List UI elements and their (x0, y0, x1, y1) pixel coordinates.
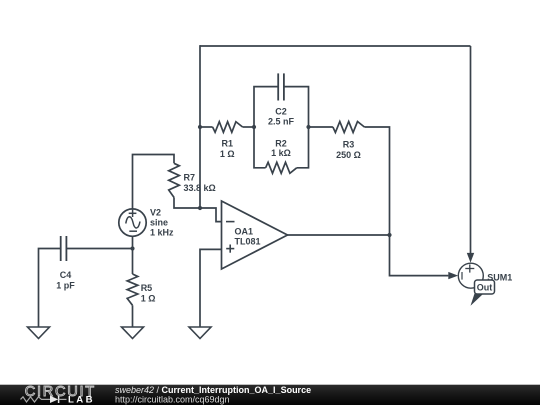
svg-text:LAB: LAB (68, 394, 95, 405)
svg-text:Out: Out (477, 282, 493, 292)
svg-text:R5: R5 (141, 283, 153, 293)
svg-text:R7: R7 (184, 172, 196, 182)
svg-text:1 Ω: 1 Ω (220, 149, 235, 159)
svg-text:C2: C2 (275, 106, 287, 116)
svg-text:1 pF: 1 pF (56, 281, 75, 291)
svg-text:TL081: TL081 (235, 237, 261, 247)
svg-text:250 Ω: 250 Ω (336, 150, 361, 160)
svg-text:C4: C4 (60, 270, 72, 280)
svg-text:33.8 kΩ: 33.8 kΩ (184, 183, 216, 193)
svg-text:http://circuitlab.com/cq69dgn: http://circuitlab.com/cq69dgn (115, 394, 230, 404)
svg-text:1 Ω: 1 Ω (141, 293, 156, 303)
svg-text:R3: R3 (343, 140, 355, 150)
svg-text:1 kΩ: 1 kΩ (271, 148, 291, 158)
svg-text:R2: R2 (275, 138, 287, 148)
svg-text:OA1: OA1 (235, 226, 254, 236)
svg-text:SUM1: SUM1 (487, 273, 512, 283)
svg-text:R1: R1 (222, 139, 234, 149)
svg-text:1 kHz: 1 kHz (150, 228, 174, 238)
svg-text:2.5 nF: 2.5 nF (268, 117, 295, 127)
svg-text:sine: sine (150, 218, 168, 228)
svg-text:V2: V2 (150, 207, 161, 217)
